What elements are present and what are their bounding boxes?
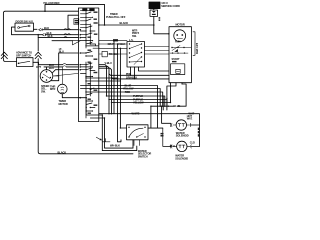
motor bracket [193, 32, 195, 56]
svg-text:RUN: RUN [175, 40, 181, 44]
svg-text:BLUE: BLUE [174, 104, 181, 108]
svg-text:GRAY: GRAY [108, 42, 115, 46]
unbalance switch box [17, 58, 34, 67]
wire y81 row [99, 80, 121, 82]
label box top-center [74, 19, 79, 25]
wire door sw out top [34, 28, 38, 30]
wire timer motor top [61, 67, 63, 84]
wire black timer feed [99, 24, 154, 26]
svg-text:MOTOR: MOTOR [59, 102, 68, 106]
svg-text:CLD: CLD [190, 141, 195, 145]
svg-text:RC-BLK: RC-BLK [109, 52, 119, 56]
wire bus v114 [113, 41, 115, 114]
wire bus v120.4 [120, 48, 126, 128]
svg-text:SW.: SW. [41, 89, 46, 93]
wire bus v102.3 selector feed [102, 115, 137, 151]
wire BLK row2 [46, 34, 79, 36]
svg-text:BLACK: BLACK [58, 150, 67, 154]
wire lid switch drop to motor winding [139, 67, 170, 71]
svg-text:BLK: BLK [48, 34, 53, 38]
wire x58.7 vertical [52, 53, 59, 81]
wire hot feed [162, 106, 171, 123]
wire left border lower curve [3, 58, 16, 62]
wire y78 row [99, 77, 118, 79]
chevron connector left [1, 52, 7, 59]
motor start winding label2 [172, 61, 177, 62]
tiny labels [16, 1, 200, 161]
timer contact rows top [80, 10, 95, 31]
wires lid switch to motor [145, 47, 170, 55]
wires below water level box [134, 140, 139, 146]
door switch left loop wire [12, 27, 43, 35]
svg-text:ORN-BLK: ORN-BLK [126, 76, 137, 80]
connector arrow row1 [39, 29, 43, 31]
svg-text:SERVICE CORD: SERVICE CORD [161, 4, 180, 8]
timer contact rows bottom [86, 98, 104, 118]
svg-text:OPT: OPT [36, 65, 42, 69]
wire timer row y64.7 [39, 64, 79, 66]
svg-text:SOLENOID: SOLENOID [176, 134, 189, 138]
connector arrow row2 [42, 34, 46, 36]
wire vertical from door loop to bottom black [37, 35, 39, 51]
svg-text:SWITCH: SWITCH [138, 154, 148, 158]
vertical text marks right edge [198, 128, 200, 137]
wire purple2 [99, 66, 167, 113]
svg-text:SW.: SW. [132, 34, 137, 38]
svg-text:EXT. MTR: EXT. MTR [195, 43, 199, 54]
timer contact rows mid1 [80, 33, 98, 48]
chevron connector mid [35, 52, 41, 59]
wire row4 [52, 40, 73, 42]
wire rotary right out2 [53, 73, 79, 76]
timer contact rows low [80, 78, 98, 95]
wire cold feed [163, 128, 171, 146]
wire bus v117.5 [118, 44, 122, 142]
motor start winding loop [171, 64, 185, 75]
svg-text:PNK: PNK [126, 72, 131, 76]
wire rotary to row [46, 67, 48, 70]
wire blue [99, 86, 158, 129]
wire yellow2 [99, 68, 171, 114]
svg-text:OFF SWITCH: OFF SWITCH [16, 54, 31, 58]
wire blue2 [151, 84, 186, 106]
timer contact rows mid2 [80, 52, 95, 77]
svg-text:YELLOW: YELLOW [123, 87, 134, 91]
wire BLK row1 [42, 29, 78, 31]
svg-text:BLU: BLU [170, 144, 175, 148]
svg-text:DOOR SW. N.O.: DOOR SW. N.O. [16, 19, 34, 23]
door switch blade [20, 26, 29, 28]
wire orn-blk lid drop to motor [112, 67, 170, 79]
svg-text:WH-BLK: WH-BLK [110, 143, 120, 147]
service cord plug box [150, 10, 158, 16]
wire yellow [99, 89, 160, 107]
svg-text:RED: RED [125, 90, 130, 94]
wire black top border [3, 11, 78, 57]
motor circle [174, 30, 186, 42]
svg-text:L.S.: L.S. [129, 38, 134, 42]
svg-text:BLK: BLK [44, 26, 49, 30]
door switch box [15, 23, 34, 31]
svg-text:BLU: BLU [49, 66, 54, 70]
svg-text:MTR: MTR [50, 87, 56, 91]
tiny label near hot feed [161, 133, 164, 137]
wire lt-blu row [59, 52, 79, 54]
wire timer motor bottom [62, 94, 86, 98]
svg-text:WHITE: WHITE [132, 112, 140, 116]
wire pnk lid drop to motor [109, 67, 169, 75]
svg-text:MOTOR: MOTOR [176, 23, 185, 27]
pennant connector at timer [73, 41, 81, 45]
motor box [169, 27, 191, 83]
cold water solenoid [177, 141, 187, 151]
motor run contacts [170, 46, 191, 54]
rc box [102, 51, 107, 57]
svg-text:YELLOW: YELLOW [133, 101, 144, 105]
wire chevron to circle [38, 59, 133, 154]
timer internal bus lines [86, 10, 90, 119]
timer box [78, 8, 98, 122]
wire black from plug down [154, 16, 169, 33]
wire row3 [38, 37, 78, 39]
motor start triangle [174, 49, 178, 52]
svg-text:PURPLE: PURPLE [133, 94, 143, 98]
wire cord drop [153, 9, 155, 10]
svg-text:START: START [172, 57, 180, 61]
lid switch box [127, 42, 145, 68]
wire yellow-red top [45, 4, 133, 148]
wire hops on door rows [64, 29, 71, 38]
service cord black block [149, 2, 160, 9]
junction dots [37, 10, 171, 128]
timer dots [85, 10, 93, 112]
wire purple1 [99, 65, 165, 107]
water level switch box [127, 125, 149, 140]
wire loop top-center [68, 15, 78, 30]
wires motor bottom drops [170, 83, 172, 103]
rotary switch circle [40, 70, 53, 83]
svg-text:BLACK: BLACK [120, 21, 129, 25]
svg-text:V-BLK: V-BLK [118, 42, 126, 46]
svg-text:YELLOW-RED: YELLOW-RED [43, 1, 60, 5]
svg-text:BLU: BLU [59, 49, 64, 53]
svg-text:SOLENOID: SOLENOID [175, 156, 188, 160]
svg-text:PUSH-PULL OFF: PUSH-PULL OFF [106, 15, 126, 19]
wire rotary right out1 [52, 70, 78, 73]
wire white [99, 114, 200, 147]
svg-text:V-BLU: V-BLU [105, 61, 113, 65]
wire timer row y66.9 [44, 66, 78, 68]
timer motor circle [58, 84, 68, 94]
timer tiny text smudges [82, 8, 97, 114]
hot water solenoid [176, 120, 186, 130]
wire red [99, 92, 163, 106]
wires timer to lid box [99, 41, 127, 49]
svg-text:WAT.: WAT. [187, 117, 193, 121]
wire unbalance out [33, 62, 39, 64]
